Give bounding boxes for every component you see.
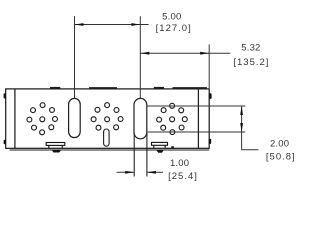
- dim 5.00 dimension line: [75, 24, 149, 26]
- dim 1.00 extension line right (slot2 right side): [146, 133, 148, 177]
- bottom tab 2 lower bump: [157, 150, 164, 153]
- svg-text:2.00: 2.00: [270, 139, 289, 150]
- arrowhead 5.32 right: [200, 52, 209, 55]
- left edge tab lower: [4, 140, 6, 145]
- top bump right: [154, 87, 164, 89]
- arrowhead 2.00 down: [240, 123, 243, 132]
- dim 1.00 dimension line right segment: [147, 171, 163, 173]
- top rim segment A: [89, 87, 117, 89]
- dim 2.00 bottom extension line: [147, 131, 246, 133]
- bottom tab 1 lower bump: [52, 150, 61, 152]
- svg-text:5.32: 5.32: [241, 42, 260, 53]
- small tick on bottom edge right of tab 2: [171, 146, 174, 148]
- dim 5.32 dimension line: [140, 52, 230, 54]
- svg-text:[135.2]: [135.2]: [233, 57, 269, 68]
- dim 2.00 leader horizontal: [242, 149, 259, 151]
- svg-text:[50.8]: [50.8]: [266, 151, 296, 162]
- bottom edge second line: [10, 149, 210, 151]
- arrowhead 1.00 left pointing right: [125, 171, 134, 174]
- svg-text:5.00: 5.00: [162, 11, 181, 22]
- dim 5.00 extension line right (slot2 center): [139, 16, 141, 98]
- slot 1 obround: [69, 98, 81, 137]
- left edge tab upper: [4, 93, 6, 98]
- right edge tab lower: [209, 139, 211, 144]
- bottom tab 1 rect: [46, 143, 65, 148]
- right end cap inner line: [197, 89, 199, 148]
- bottom tab 2 rect: [152, 142, 168, 148]
- dim 2.00 top extension line: [147, 105, 246, 107]
- hole cluster middle: [91, 103, 123, 130]
- hole cluster left: [27, 103, 58, 135]
- left end cap inner line: [14, 89, 16, 148]
- right edge tab upper: [209, 93, 211, 99]
- arrowhead 5.32 left: [140, 52, 149, 55]
- svg-text:1.00: 1.00: [170, 158, 189, 169]
- body outline: [6, 89, 210, 148]
- slot 2 obround: [134, 98, 147, 138]
- dim 2.00 dimension line vertical: [241, 106, 243, 150]
- small slot below middle cluster: [104, 129, 110, 146]
- svg-text:[25.4]: [25.4]: [168, 171, 198, 182]
- dim 1.00 extension line left (slot2 left side): [133, 133, 135, 177]
- arrowhead 5.00 right: [131, 23, 140, 26]
- top bump left: [50, 87, 60, 89]
- arrowhead 1.00 right pointing left: [147, 171, 156, 174]
- arrowhead 2.00 up: [240, 106, 243, 115]
- top rim segment B: [173, 87, 208, 89]
- arrowhead 5.00 left: [75, 23, 84, 26]
- svg-text:[127.0]: [127.0]: [156, 23, 192, 34]
- hole cluster right: [157, 103, 188, 134]
- dim 1.00 dimension line left segment: [117, 171, 135, 173]
- dim 5.32 extension line (body right edge): [208, 45, 210, 89]
- dim 5.00 extension line left (slot1 center): [74, 16, 76, 98]
